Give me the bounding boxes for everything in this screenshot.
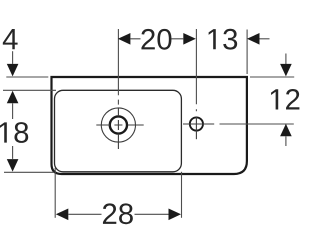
dimension 12 arrow up xyxy=(280,124,292,137)
tap hole center line xyxy=(195,29,197,111)
tap hole crosshair vertical xyxy=(195,116,197,139)
dimension 13 arrow xyxy=(247,33,260,45)
tap hole circle xyxy=(190,117,203,130)
dimension 20 arrow right xyxy=(183,33,196,45)
extension line bowl top left xyxy=(3,89,56,91)
drain crosshair vertical xyxy=(117,108,119,149)
drain crosshair horizontal xyxy=(96,124,143,126)
extension line 28 right xyxy=(181,172,183,218)
dimension 12 arrow down xyxy=(280,64,292,77)
dimension 28 label xyxy=(103,203,133,224)
dimension 28 line right xyxy=(135,213,169,215)
extension line 13 right xyxy=(246,30,248,75)
dimension 28 arrow left xyxy=(56,209,69,221)
drain center line xyxy=(117,29,119,105)
dimension 18 arrow up xyxy=(7,91,19,104)
dimension 18 arrow down xyxy=(7,159,19,172)
dimension 18 line upper xyxy=(12,103,14,119)
tap hole crosshair horizontal xyxy=(183,123,214,125)
extension line bowl bottom left xyxy=(4,171,54,173)
dimension 4 line xyxy=(12,51,14,64)
drain inner circle xyxy=(110,116,127,133)
dimension 18 label xyxy=(0,122,28,143)
drain outer circle xyxy=(101,108,135,142)
dimension 12 line upper xyxy=(285,54,287,65)
extension line basin top left xyxy=(6,76,48,78)
dimension 12 line lower xyxy=(285,136,287,146)
extension line right of basin top-right corner xyxy=(250,76,294,78)
dimension 20 line xyxy=(130,38,183,40)
dimension 13 label xyxy=(209,29,238,50)
dimension 12 label xyxy=(271,89,299,110)
dimension 20 label xyxy=(141,29,171,50)
extension line tap center to right xyxy=(220,123,294,125)
dimension 18 line lower xyxy=(12,146,14,159)
basin outer outline xyxy=(52,77,247,174)
dimension 4 label xyxy=(3,29,18,49)
dimension 20 arrow left xyxy=(118,33,130,45)
dimension 13 arrow tail xyxy=(260,38,270,40)
dimension 28 line left xyxy=(68,213,101,215)
dimension 4 arrow down xyxy=(7,64,19,77)
extension line 28 left xyxy=(54,168,56,218)
dimension 28 arrow right xyxy=(169,209,182,221)
inner bowl xyxy=(55,90,182,172)
